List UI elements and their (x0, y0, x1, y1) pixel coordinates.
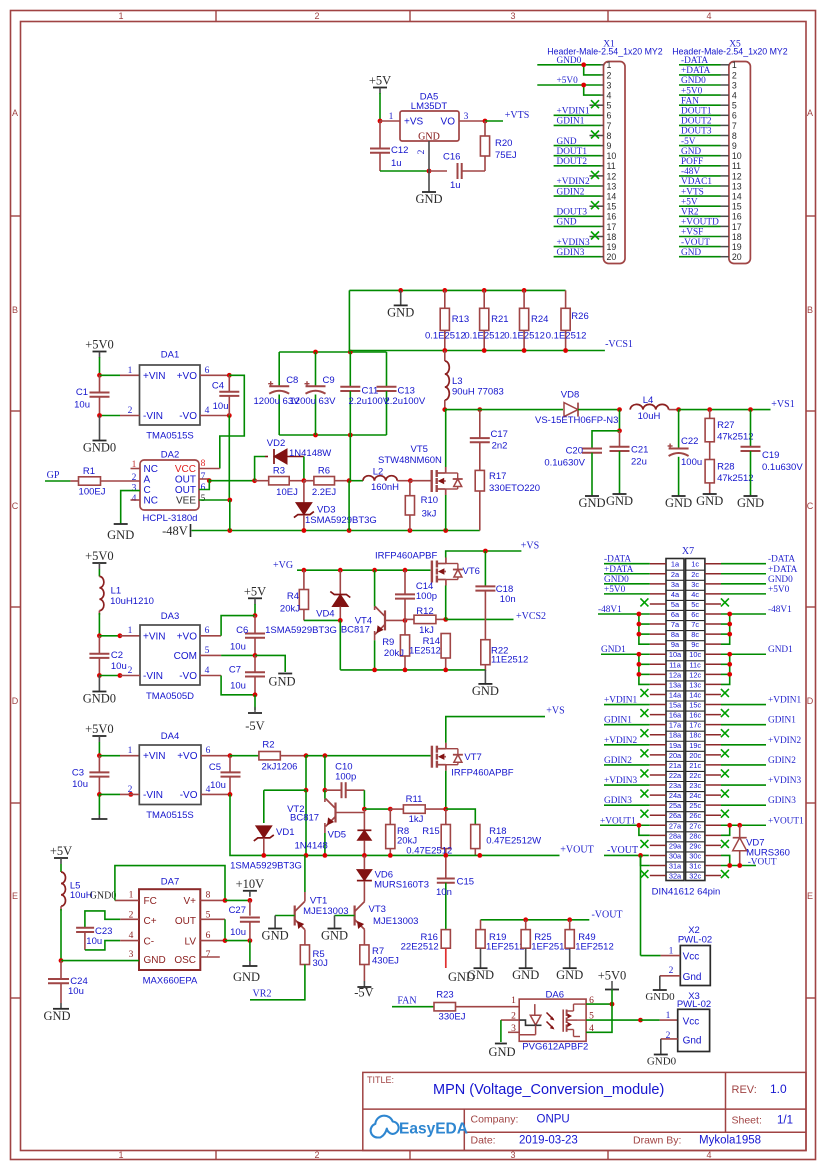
wire X7 1c -DATA (721, 563, 766, 565)
svg-text:3: 3 (132, 484, 137, 494)
wire (98, 742, 100, 756)
svg-text:-DATA: -DATA (681, 56, 708, 66)
svg-text:30c: 30c (689, 851, 701, 860)
svg-text:100EJ: 100EJ (79, 487, 106, 498)
svg-text:PWL-02: PWL-02 (677, 999, 711, 1010)
junction (227, 498, 232, 503)
junction (442, 288, 447, 293)
wire -VOUT down to X2 (640, 855, 642, 955)
junction (223, 938, 228, 943)
svg-text:GDIN3: GDIN3 (768, 796, 796, 806)
svg-text:75EJ: 75EJ (495, 150, 517, 161)
svg-text:GND: GND (262, 929, 289, 943)
wire X1 pin17 GND (554, 225, 601, 227)
junction (372, 668, 377, 673)
wire to DA1 pin1 (100, 374, 121, 376)
svg-text:VCC: VCC (175, 464, 196, 475)
svg-text:GND0: GND0 (83, 441, 116, 455)
junction (227, 373, 232, 378)
junction (97, 792, 102, 797)
svg-text:14c: 14c (689, 690, 701, 699)
svg-text:19: 19 (607, 242, 617, 252)
wire X5 pin6 DOUT1 (679, 114, 721, 116)
junction (581, 83, 586, 88)
junction (323, 753, 328, 758)
svg-text:+VIN: +VIN (143, 751, 166, 762)
svg-text:GND: GND (512, 968, 539, 982)
no-connect X7 18a (640, 729, 648, 737)
svg-text:2: 2 (417, 149, 427, 154)
svg-text:14: 14 (732, 192, 742, 202)
svg-text:C12: C12 (391, 145, 408, 156)
wire X5 pin5 FAN (679, 104, 721, 106)
svg-text:4c: 4c (691, 590, 699, 599)
wire gate node down (305, 756, 307, 791)
svg-text:1EF2512: 1EF2512 (575, 942, 614, 953)
svg-text:+VS1: +VS1 (771, 399, 794, 410)
svg-text:24a: 24a (669, 791, 682, 800)
wire LV to C27 (225, 940, 250, 942)
svg-text:6: 6 (206, 746, 211, 756)
svg-text:0.1E2512: 0.1E2512 (504, 331, 545, 342)
svg-text:1: 1 (129, 891, 134, 901)
svg-text:23a: 23a (669, 781, 682, 790)
svg-text:30J: 30J (313, 958, 329, 969)
svg-text:13a: 13a (669, 680, 682, 689)
junction (727, 662, 732, 667)
svg-text:+VIN: +VIN (143, 631, 166, 642)
svg-text:23c: 23c (689, 781, 701, 790)
wire X7 GND1 tie (639, 654, 650, 684)
junction (97, 633, 102, 638)
wire L3 to VT5 drain (444, 410, 447, 467)
svg-text:1E2512: 1E2512 (409, 646, 441, 656)
svg-text:3a: 3a (671, 580, 680, 589)
junction (483, 119, 488, 124)
svg-text:3: 3 (607, 80, 612, 90)
svg-text:C20: C20 (566, 446, 583, 457)
svg-text:+5V: +5V (369, 74, 391, 88)
IC DA4 TMA0515S (139, 745, 201, 805)
svg-text:GND: GND (415, 192, 442, 206)
svg-text:10n: 10n (436, 887, 452, 898)
svg-text:DA6: DA6 (546, 990, 564, 1001)
svg-text:GND1: GND1 (601, 645, 626, 655)
junction (253, 613, 258, 618)
wire DA2 pin7 (199, 478, 209, 480)
wire X2 pin2 (660, 975, 681, 977)
wire DA1 pin1 (120, 374, 140, 376)
capacitor C22 electrolytic (678, 410, 680, 449)
ground GND DA5 (428, 171, 430, 192)
ground GND R49 (569, 948, 571, 968)
svg-text:L4: L4 (643, 395, 654, 406)
resistor R28 (709, 442, 711, 460)
wire +VTS (485, 120, 503, 122)
svg-text:C: C (144, 485, 151, 496)
svg-text:1: 1 (128, 366, 133, 376)
svg-text:11c: 11c (690, 660, 702, 669)
svg-text:POFF: POFF (681, 157, 703, 167)
resistor R20 (484, 121, 486, 136)
resistor R26 (565, 290, 567, 308)
svg-text:GND0: GND0 (604, 575, 629, 585)
svg-text:VS-15ETH06FP-N3: VS-15ETH06FP-N3 (535, 415, 618, 426)
ground GND DA6 (495, 1043, 507, 1045)
junction (207, 478, 212, 483)
junction (442, 407, 447, 412)
no-connect X1 pin15 (591, 201, 599, 209)
svg-text:18: 18 (607, 232, 617, 242)
capacitor C23 (76, 927, 94, 929)
wire DA7 pin2 (120, 918, 139, 920)
wire to C10 (324, 756, 326, 791)
resistor R10 (409, 481, 411, 496)
svg-text:47k2512: 47k2512 (717, 432, 753, 443)
junction (443, 807, 448, 812)
svg-text:+VDIN1: +VDIN1 (768, 696, 801, 706)
junction (323, 853, 328, 858)
wire +VO to +5V (221, 616, 255, 636)
svg-text:16c: 16c (689, 711, 701, 720)
svg-text:Gnd: Gnd (683, 1036, 702, 1047)
svg-text:Vcc: Vcc (683, 1017, 700, 1028)
svg-text:2a: 2a (671, 570, 680, 579)
wire pin3 DA5 (459, 120, 485, 122)
ground GND C20 (591, 495, 593, 496)
svg-text:B: B (807, 305, 813, 315)
ground GND DA2 (114, 523, 128, 525)
svg-text:4: 4 (129, 931, 134, 941)
transistor VT1 MJE13003 (294, 906, 296, 926)
wire X7 31c -VOUT (721, 865, 756, 867)
wire DA6 pin4 tie (586, 1004, 612, 1032)
wire R1 lead (70, 480, 78, 482)
svg-text:DA3: DA3 (161, 611, 179, 622)
wire X7 19c +VDIN2 (721, 744, 766, 746)
svg-text:10n: 10n (500, 594, 516, 605)
capacitor C11 (349, 352, 351, 387)
wire OUT to R3 (209, 480, 254, 482)
svg-text:OUT: OUT (175, 916, 196, 927)
wire to C17 node (446, 409, 480, 411)
junction (637, 823, 642, 828)
svg-text:DOUT1: DOUT1 (557, 147, 588, 157)
junction (223, 898, 228, 903)
svg-text:21a: 21a (669, 761, 682, 770)
inductor L4 (630, 404, 668, 409)
junction (227, 528, 232, 533)
svg-text:30a: 30a (669, 851, 682, 860)
wire +VG rail (297, 569, 431, 571)
svg-text:STW48NM60N: STW48NM60N (378, 455, 442, 466)
junction (427, 169, 432, 174)
svg-text:27c: 27c (689, 821, 701, 830)
wire VT6 source (445, 586, 447, 620)
junction (637, 662, 642, 667)
junction (567, 917, 572, 922)
svg-text:+VTS: +VTS (505, 110, 530, 121)
svg-text:2kJ1206: 2kJ1206 (262, 762, 298, 773)
EasyEDA logo (371, 1116, 399, 1138)
svg-text:TMA0505D: TMA0505D (146, 691, 194, 702)
no-connect X1 pin18 (591, 232, 599, 240)
junction (403, 668, 408, 673)
wire COM to GND (255, 655, 285, 672)
wire to VD8 (480, 409, 563, 411)
wire bank to -48V (348, 481, 350, 531)
svg-text:8: 8 (607, 131, 612, 141)
no-connect X7 32c (721, 870, 729, 878)
svg-text:L2: L2 (373, 467, 384, 478)
svg-text:A: A (144, 475, 151, 486)
wire C16 right (462, 170, 485, 172)
svg-text:100u: 100u (681, 457, 702, 468)
wire X7 2a +DATA (604, 573, 650, 575)
svg-text:9: 9 (732, 141, 737, 151)
svg-text:R13: R13 (452, 314, 469, 325)
svg-text:10u: 10u (86, 936, 102, 947)
junction (482, 288, 487, 293)
wire DA6 pin6 (586, 1003, 612, 1005)
resistor R6 (304, 480, 314, 482)
ground GND0 X2 (659, 976, 661, 990)
wire DA3 pin1 (120, 635, 140, 637)
DA6 photo arrows (547, 1013, 554, 1020)
svg-text:MAX660EPA: MAX660EPA (143, 976, 198, 987)
svg-text:FC: FC (144, 896, 157, 907)
resistor R22 (484, 665, 486, 671)
svg-text:-VIN: -VIN (143, 411, 163, 422)
svg-text:+DATA: +DATA (681, 66, 711, 76)
wire X7 8c (721, 633, 730, 635)
junction (707, 407, 712, 412)
resistor R23 (456, 1006, 520, 1008)
wire X5 pin9 -5V (679, 145, 721, 147)
wire FC to V+ (115, 866, 225, 901)
power flag +5V (373, 87, 387, 89)
svg-text:-DATA: -DATA (768, 555, 795, 565)
svg-text:13: 13 (607, 181, 617, 191)
svg-text:NC: NC (144, 496, 158, 507)
wire X7 15a +VDIN1 (604, 704, 650, 706)
capacitor C6 (254, 616, 256, 634)
junction (248, 898, 253, 903)
diode VD2 1N4148W (265, 456, 268, 458)
svg-text:1: 1 (118, 1150, 123, 1160)
wire DA2 pin8 (199, 468, 220, 470)
inductor L3 (445, 361, 450, 400)
wire X7 12a (639, 673, 650, 675)
power flag -5V DA3 (248, 712, 262, 714)
svg-text:GND: GND (696, 494, 723, 508)
svg-text:GND: GND (472, 684, 499, 698)
junction (737, 823, 742, 828)
svg-text:2: 2 (314, 11, 319, 21)
svg-text:-48V: -48V (162, 524, 188, 538)
svg-text:1: 1 (511, 996, 516, 1006)
svg-text:-DATA: -DATA (604, 555, 631, 565)
wire X7 -48V1 tie (639, 614, 650, 644)
wire to -5V flag (254, 695, 256, 710)
resistor R49 (569, 920, 571, 930)
svg-text:+VO: +VO (177, 631, 198, 642)
svg-text:-48V: -48V (681, 167, 700, 177)
svg-text:C9: C9 (323, 375, 335, 386)
resistor R11 (390, 808, 403, 810)
svg-text:3: 3 (510, 1150, 515, 1160)
svg-text:C3: C3 (72, 768, 84, 779)
svg-text:PWL-02: PWL-02 (678, 935, 712, 946)
svg-text:17: 17 (732, 222, 742, 232)
svg-text:2019-03-23: 2019-03-23 (519, 1135, 578, 1147)
wire DA6 pin5 (586, 1019, 640, 1021)
wire +VCS2 (446, 618, 514, 620)
stub DA2 pin1 (131, 468, 141, 470)
wire to C20 (592, 431, 620, 449)
junction (118, 673, 123, 678)
resistor R17 (479, 491, 481, 531)
svg-text:GND: GND (681, 248, 701, 258)
wire to DA3 pin1 (99, 635, 120, 637)
wire VT6 drain +VS (446, 551, 522, 558)
svg-text:2.2EJ: 2.2EJ (312, 487, 337, 498)
svg-text:9a: 9a (671, 640, 680, 649)
svg-text:6a: 6a (671, 610, 680, 619)
connector X2 PWL-02 (680, 946, 710, 986)
svg-text:Date:: Date: (471, 1135, 496, 1147)
wire -48V rail (192, 530, 480, 532)
svg-text:GND: GND (665, 496, 692, 510)
junction (727, 863, 732, 868)
svg-text:16: 16 (732, 212, 742, 222)
junction (737, 863, 742, 868)
svg-text:2: 2 (314, 1150, 319, 1160)
svg-text:+VTS: +VTS (681, 187, 704, 197)
svg-text:OSC: OSC (174, 955, 196, 966)
svg-text:25a: 25a (669, 801, 682, 810)
wire pin1 DA5 (380, 120, 400, 122)
svg-text:0.1u630V: 0.1u630V (544, 458, 585, 469)
no-connect X7 29a (640, 840, 648, 848)
wire C23 top (85, 911, 120, 927)
wire cap bank top rail (279, 351, 386, 353)
svg-text:C1: C1 (76, 387, 88, 398)
svg-text:GND0: GND0 (90, 891, 117, 902)
power flag +5V0 DA3 (92, 562, 106, 564)
svg-text:R20: R20 (495, 138, 512, 149)
svg-text:29a: 29a (669, 841, 682, 850)
svg-text:+VDIN1: +VDIN1 (604, 696, 637, 706)
svg-text:1SMA5929BT3G: 1SMA5929BT3G (265, 625, 337, 636)
wire X1 pin6 +VDIN1 (554, 114, 601, 116)
junction (338, 568, 343, 573)
svg-text:1: 1 (118, 11, 123, 21)
svg-text:DA1: DA1 (161, 350, 179, 361)
inductor L2 (363, 476, 397, 481)
svg-text:4: 4 (205, 406, 210, 416)
svg-text:2: 2 (128, 406, 133, 416)
junction (304, 753, 309, 758)
svg-text:C8: C8 (286, 375, 298, 386)
svg-text:TMA0515S: TMA0515S (146, 431, 194, 442)
junction (227, 413, 232, 418)
svg-text:31a: 31a (669, 862, 682, 871)
wire L5 down (60, 909, 62, 961)
wire pin2 to GND (500, 1020, 502, 1042)
svg-text:1.0: 1.0 (770, 1082, 787, 1096)
IC DA2 HCPL-3180 (140, 460, 199, 510)
wire L2 to VT5 gate (410, 480, 430, 482)
junction (362, 807, 367, 812)
svg-text:C-: C- (144, 937, 155, 948)
no-connect X7 32a (640, 870, 648, 878)
junction (304, 853, 309, 858)
svg-text:BC817: BC817 (341, 624, 370, 635)
wire DA7 pin4 (120, 940, 139, 942)
svg-text:1: 1 (732, 60, 737, 70)
wire X7 23c +VDIN3 (721, 784, 766, 786)
wire to X3 Vcc (641, 1019, 660, 1021)
resistor R3 (255, 480, 269, 482)
svg-text:19a: 19a (669, 741, 682, 750)
wire R2 to VT7 gate (306, 755, 431, 757)
svg-text:C27: C27 (229, 905, 246, 916)
ground GND0 DA1 (99, 416, 101, 441)
wire L1 to DA3 (98, 613, 100, 636)
resistor R16 (441, 930, 450, 949)
svg-text:1c: 1c (691, 560, 699, 569)
wire +VOUT rail (264, 854, 560, 856)
junction (523, 917, 528, 922)
svg-text:D: D (12, 696, 19, 706)
svg-text:MJE13003: MJE13003 (373, 916, 418, 927)
wire R4 to VD4 (304, 619, 340, 621)
wire VEE to -48V (229, 500, 231, 531)
diode VD6 MURS160T3 (357, 870, 372, 881)
wire X7 GND1 tie c (721, 654, 730, 684)
svg-text:7: 7 (201, 472, 206, 482)
junction (727, 632, 732, 637)
svg-text:16a: 16a (669, 711, 682, 720)
svg-text:VD2: VD2 (267, 438, 285, 449)
wire X7 21a GDIN2 (604, 764, 650, 766)
junction (338, 618, 343, 623)
svg-text:7: 7 (732, 121, 737, 131)
svg-text:C15: C15 (457, 877, 474, 888)
wire bank to top rail (348, 290, 350, 352)
svg-text:R2: R2 (262, 740, 274, 751)
resistor R19 (480, 920, 482, 930)
svg-text:+5V0: +5V0 (604, 585, 626, 595)
wire to DA4 pin1 (99, 755, 120, 757)
transistor VT7 IRFP460APBF (431, 746, 433, 768)
svg-text:GDIN3: GDIN3 (604, 796, 632, 806)
capacitor C12 (379, 121, 381, 149)
capacitor C1 (99, 375, 101, 392)
svg-text:C6: C6 (236, 625, 248, 636)
svg-text:GDIN3: GDIN3 (557, 248, 585, 258)
svg-text:10uH1210: 10uH1210 (110, 596, 154, 607)
wire DA7 pin8 (200, 899, 225, 901)
svg-text:10u: 10u (230, 681, 246, 692)
svg-text:90uH 77083: 90uH 77083 (452, 387, 504, 398)
svg-text:GND: GND (144, 955, 166, 966)
DA6 output mosfet symbol (562, 1010, 564, 1032)
svg-text:6c: 6c (691, 610, 699, 619)
svg-text:4: 4 (132, 494, 137, 504)
svg-text:PVG612APBF2: PVG612APBF2 (522, 1042, 588, 1053)
